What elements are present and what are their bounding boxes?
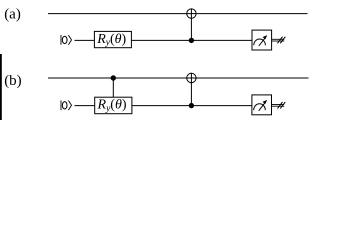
svg-text:Ry(θ): Ry(θ) [96, 32, 126, 48]
svg-text:(b): (b) [4, 73, 22, 89]
svg-text:(a): (a) [4, 6, 21, 22]
svg-text:Ry(θ): Ry(θ) [97, 98, 127, 114]
